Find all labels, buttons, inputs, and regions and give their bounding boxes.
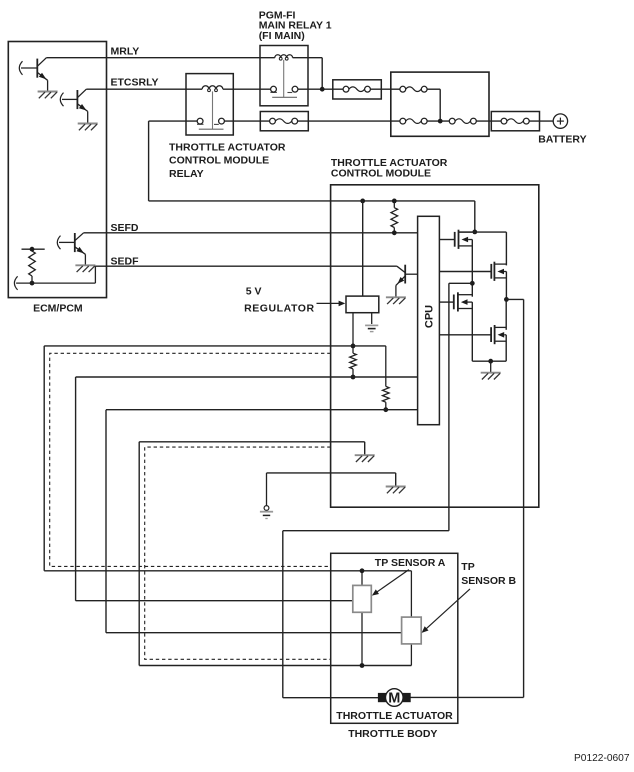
- label CPU: [424, 305, 436, 328]
- MOSFET Q2: [491, 262, 506, 281]
- wire TP sensor A branch: [361, 571, 363, 666]
- label SEDF: [111, 255, 140, 267]
- wire SEDF riser: [94, 266, 96, 283]
- svg-text:(FI MAIN): (FI MAIN): [259, 30, 305, 42]
- svg-text:BATTERY: BATTERY: [538, 133, 586, 145]
- fuse F5 box: [491, 112, 539, 131]
- label THROTTLE ACTUATOR CONTROL MODULE RELAY: [169, 141, 286, 180]
- node TP A top: [360, 568, 365, 573]
- svg-text:P0122-0607: P0122-0607: [574, 753, 630, 764]
- wire motor drive B: [410, 299, 523, 697]
- svg-text:CPU: CPU: [424, 305, 436, 328]
- wire SEDF: [95, 265, 397, 267]
- battery: [553, 114, 567, 128]
- wire loop sensor ground: [139, 442, 411, 666]
- resistor R1 (SEFD pull-up): [391, 201, 398, 233]
- ground (SEFD driver emitter): [75, 265, 95, 272]
- wire Q4 drain: [505, 299, 507, 329]
- MOSFET Q4 gate wire: [439, 334, 491, 336]
- svg-text:CONTROL MODULE: CONTROL MODULE: [331, 168, 431, 180]
- node TP A bottom: [360, 663, 365, 668]
- transistor MRLY driver: [19, 58, 47, 91]
- ground G101 (body): [260, 506, 273, 519]
- wire module top rail: [331, 201, 475, 232]
- fuse F3 (lower-left, in box): [400, 118, 427, 124]
- svg-text:THROTTLE ACTUATOR: THROTTLE ACTUATOR: [336, 710, 453, 722]
- node rail-Q1 drain: [472, 230, 477, 235]
- wire TP B signal: [331, 409, 418, 411]
- arrow to regulator: [317, 301, 346, 307]
- wire regulator ground stub: [371, 313, 373, 324]
- node rail-resistor: [392, 199, 397, 204]
- TP sensor A element: [353, 585, 372, 612]
- label BATTERY: [538, 133, 586, 145]
- wire Q1 source: [471, 240, 473, 284]
- ECM/PCM box: [8, 42, 106, 298]
- node coil/contact junction: [320, 87, 325, 92]
- node R2 bottom: [351, 375, 356, 380]
- fuse F4 (lower-right, in box): [449, 118, 476, 124]
- wire body ground drop: [266, 473, 268, 506]
- fuse F0 box: [333, 80, 382, 99]
- arrow to TP sensor A: [372, 570, 409, 596]
- fuse F0: [343, 86, 370, 92]
- wire 5V feed: [331, 346, 386, 387]
- wire TP sensor B branch: [410, 571, 412, 666]
- label SEFD: [111, 222, 139, 234]
- wire SEFD: [84, 232, 418, 234]
- node R1-SEFD: [392, 230, 397, 235]
- resistor in ECM (SEDF pull-up): [22, 249, 45, 283]
- label MRLY: [111, 46, 140, 58]
- wire Q3 source: [471, 302, 473, 361]
- svg-text:SENSOR B: SENSOR B: [461, 575, 516, 587]
- fuse/relay box (under-hood): [391, 72, 489, 136]
- label THROTTLE BODY: [348, 728, 437, 740]
- 5V regulator box: [346, 296, 379, 313]
- node motor B junction: [504, 297, 509, 302]
- node bridge ground tap: [488, 359, 493, 364]
- relay K1 armature link: [212, 91, 214, 129]
- wire Q1 drain: [459, 232, 507, 265]
- MOSFET Q2 gate wire: [439, 271, 491, 273]
- svg-text:CONTROL MODULE: CONTROL MODULE: [169, 155, 269, 167]
- transistor ETCSRLY driver: [60, 89, 87, 123]
- fuse F1 box: [260, 112, 308, 131]
- relay K1 box (throttle actuator control module relay): [186, 74, 233, 135]
- motor M (throttle actuator): [378, 689, 411, 707]
- TP sensor B element: [402, 617, 422, 644]
- label THROTTLE ACTUATOR: [336, 710, 453, 722]
- fuse F5: [501, 118, 529, 124]
- label THROTTLE ACTUATOR CONTROL MODULE: [331, 157, 448, 180]
- wire K2 coil to contact output: [293, 58, 323, 89]
- ground (SEDF monitor emitter): [386, 297, 406, 304]
- svg-text:ECM/PCM: ECM/PCM: [33, 302, 83, 314]
- ground (MRLY driver emitter): [38, 92, 58, 99]
- svg-text:MRLY: MRLY: [111, 46, 140, 58]
- svg-text:M: M: [388, 691, 400, 707]
- svg-text:TP SENSOR A: TP SENSOR A: [375, 557, 446, 569]
- svg-text:THROTTLE BODY: THROTTLE BODY: [348, 728, 437, 740]
- label ETCSRLY: [111, 77, 159, 89]
- wire ETCSRLY: [86, 88, 440, 90]
- svg-text:SEDF: SEDF: [111, 255, 140, 267]
- resistor R2 (TP A pull-up): [350, 353, 357, 377]
- wire fuse line y121: [224, 120, 553, 122]
- ground (ETCSRLY driver emitter): [78, 124, 98, 131]
- transistor SEDF monitor: [396, 265, 418, 297]
- MOSFET Q3: [454, 292, 473, 311]
- wire motor drive A: [283, 283, 473, 697]
- wire module ground 1: [331, 442, 365, 455]
- wire module ground 2: [267, 473, 396, 486]
- node F2 junction: [438, 119, 443, 124]
- ground (regulator, earth): [365, 325, 378, 331]
- label 5 V REGULATOR: [244, 286, 314, 315]
- fuse F1: [270, 118, 298, 124]
- wire Q4 source: [505, 335, 507, 361]
- relay K2 contacts: [270, 86, 298, 97]
- wire loop TP B signal: [106, 410, 402, 633]
- svg-text:THROTTLE ACTUATOR: THROTTLE ACTUATOR: [169, 141, 286, 153]
- resistor R3 (TP B pull-up): [383, 386, 390, 409]
- wire bridge source rail: [472, 360, 506, 362]
- node rail-regulator: [360, 199, 365, 204]
- label PGM-FI MAIN RELAY 1 (FI MAIN): [259, 9, 332, 42]
- svg-text:ETCSRLY: ETCSRLY: [111, 77, 159, 89]
- wire Q3 drain: [471, 283, 473, 296]
- arrow to TP sensor B: [422, 589, 470, 633]
- shield (dashed) outer: [50, 353, 331, 566]
- wire TP A signal: [331, 376, 418, 378]
- relay K2 coil: [275, 55, 293, 60]
- svg-text:RELAY: RELAY: [169, 168, 204, 180]
- svg-text:5 V: 5 V: [246, 286, 262, 298]
- label TP SENSOR A: [375, 557, 446, 569]
- node 5V wire junction: [351, 344, 356, 349]
- ground (H-bridge): [481, 373, 501, 380]
- MOSFET Q3 gate wire: [439, 301, 453, 303]
- wire F2 to main line: [439, 89, 441, 121]
- figure number: [574, 753, 630, 764]
- relay K1 coil: [202, 86, 223, 92]
- wire loop 5V (to TP sensors): [44, 346, 411, 571]
- shield (dashed) inner: [145, 447, 331, 659]
- label ECM/PCM: [33, 302, 83, 314]
- relay K2 armature link: [283, 60, 285, 97]
- wire relay K1 contact to module: [149, 121, 331, 201]
- relay K2 box (PGM-FI main relay 1): [260, 46, 308, 106]
- ground (module power): [386, 487, 406, 494]
- MOSFET Q1 gate wire: [439, 239, 454, 241]
- svg-text:SEFD: SEFD: [111, 222, 139, 234]
- throttle actuator control module box: [331, 185, 539, 507]
- wire ECM bottom rail: [14, 276, 95, 290]
- MOSFET Q4: [491, 325, 506, 344]
- transistor SEFD driver: [57, 233, 85, 265]
- label TP SENSOR B: [461, 561, 516, 587]
- relay K1 contacts: [197, 118, 224, 129]
- wire Q2 source: [505, 272, 507, 300]
- MOSFET Q1: [455, 230, 473, 249]
- node R3 bottom: [383, 407, 388, 412]
- ground (module logic): [355, 455, 375, 462]
- wire regulator to rail: [362, 201, 364, 296]
- svg-text:TP: TP: [461, 561, 474, 573]
- wire loop TP A signal: [76, 377, 353, 601]
- node resistor top: [30, 247, 35, 252]
- wire regulator output drop: [352, 313, 354, 354]
- node resistor bottom: [30, 281, 35, 286]
- fuse F2 (top, in box): [400, 86, 427, 92]
- wire MRLY: [46, 57, 274, 59]
- throttle body box: [331, 553, 458, 723]
- svg-text:REGULATOR: REGULATOR: [244, 302, 314, 314]
- wire bridge ground stub: [490, 361, 492, 372]
- CPU box: [418, 216, 440, 424]
- node motor A junction: [470, 281, 475, 286]
